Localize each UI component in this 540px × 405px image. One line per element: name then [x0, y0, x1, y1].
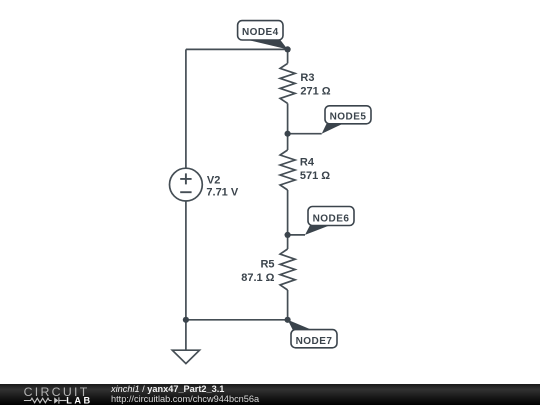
- svg-text:7.71 V: 7.71 V: [206, 187, 238, 199]
- footer bar: [0, 384, 540, 405]
- junction dot ground: [183, 317, 189, 323]
- resistor R4: [280, 150, 295, 190]
- V2 plus sign: [180, 173, 191, 184]
- svg-text:V2: V2: [207, 174, 220, 186]
- wire top horizontal: [186, 48, 288, 50]
- svg-text:271 Ω: 271 Ω: [300, 86, 330, 98]
- wire right rail seg1: [287, 49, 289, 63]
- wire left rail upper: [185, 49, 187, 168]
- resistor R5: [280, 249, 295, 290]
- wire stub node5: [288, 133, 322, 135]
- voltage source V2: [170, 168, 203, 201]
- node NODE6 flag: [305, 207, 354, 235]
- svg-text:NODE5: NODE5: [330, 112, 367, 123]
- junction dot node5: [285, 131, 291, 137]
- svg-text:R4: R4: [300, 157, 315, 169]
- footer line 1: [111, 384, 224, 394]
- svg-text:R3: R3: [300, 72, 314, 84]
- ground triangle: [172, 350, 199, 363]
- CircuitLab logo: [0, 384, 100, 405]
- svg-text:87.1 Ω: 87.1 Ω: [241, 272, 274, 284]
- svg-text:NODE4: NODE4: [242, 27, 279, 38]
- svg-text:NODE7: NODE7: [296, 336, 333, 347]
- footer line 2: [111, 394, 259, 404]
- wire right rail seg3: [287, 190, 289, 249]
- node NODE4 flag: [238, 21, 288, 50]
- wire right rail seg2: [287, 103, 289, 150]
- junction dot node4: [285, 46, 291, 52]
- svg-text:R5: R5: [260, 258, 274, 270]
- wire stub node6: [288, 234, 305, 236]
- resistor R3: [280, 63, 295, 103]
- svg-text:NODE6: NODE6: [313, 213, 350, 224]
- junction dot node6: [285, 232, 291, 238]
- svg-text:571 Ω: 571 Ω: [300, 170, 330, 182]
- wire right rail seg4: [287, 290, 289, 320]
- ground stem: [185, 320, 187, 350]
- wire bottom horizontal: [186, 319, 288, 321]
- V2 minus sign: [180, 191, 191, 193]
- wire left rail lower: [185, 201, 187, 320]
- svg-text:LAB: LAB: [66, 396, 92, 405]
- node NODE5 flag: [322, 106, 371, 134]
- node NODE7 flag: [288, 320, 337, 348]
- junction dot node7: [285, 317, 291, 323]
